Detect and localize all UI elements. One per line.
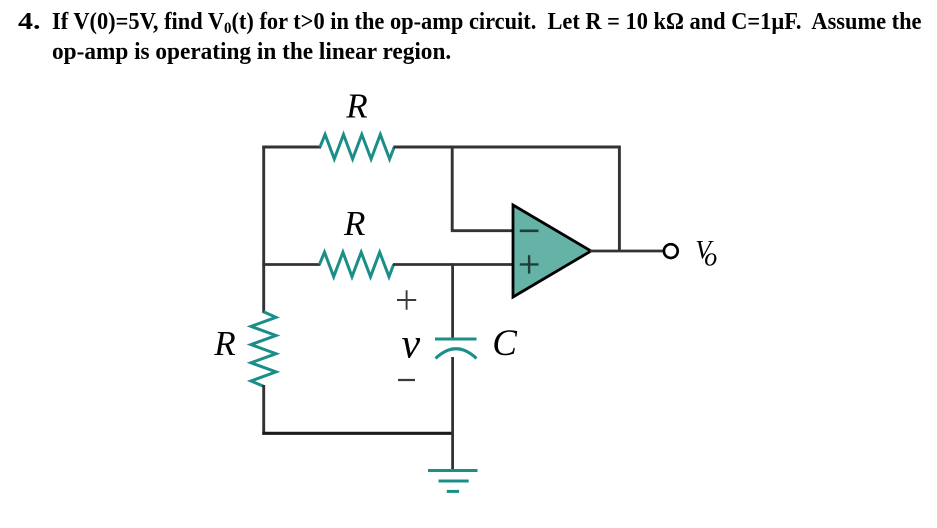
svg-text:R: R	[343, 204, 365, 243]
wire feedback vertical	[618, 146, 621, 252]
problem number	[18, 10, 41, 34]
wire mid-right segment	[393, 263, 514, 266]
wire top-right segment	[394, 146, 621, 149]
capacitor C top plate	[435, 338, 477, 341]
op-amp inverting pin minus	[520, 230, 539, 233]
op-amp U1	[513, 205, 591, 297]
resistor R1 (feedback)	[320, 135, 394, 160]
label + (capacitor polarity)	[397, 290, 416, 309]
svg-text:R: R	[345, 87, 367, 126]
wire bottom horizontal	[262, 432, 452, 435]
wire capacitor branch upper	[451, 263, 454, 339]
svg-text:R: R	[213, 324, 235, 363]
capacitor C bottom curved plate	[436, 349, 477, 359]
op-amp non-inverting pin plus	[520, 255, 539, 273]
wire output	[590, 250, 663, 253]
wire mid-left segment	[262, 263, 320, 266]
resistor R2 (non-inverting input)	[319, 252, 393, 277]
svg-text:Vo: Vo	[695, 236, 717, 272]
svg-text:C: C	[492, 323, 518, 364]
wire left vertical lower	[262, 385, 265, 435]
wire left vertical upper	[262, 146, 265, 314]
problem text line 2	[52, 40, 451, 64]
wire inverting-input horizontal	[451, 229, 514, 232]
wire top-left segment	[262, 146, 321, 149]
wire capacitor branch lower	[451, 357, 454, 470]
label minus (capacitor polarity)	[398, 379, 415, 381]
output terminal circle	[664, 244, 678, 258]
problem text line 1	[52, 10, 921, 34]
wire inverting-input vertical	[451, 146, 454, 231]
svg-text:v: v	[402, 322, 421, 368]
ground	[428, 471, 478, 492]
resistor R3 (left, to ground wire)	[251, 312, 276, 387]
